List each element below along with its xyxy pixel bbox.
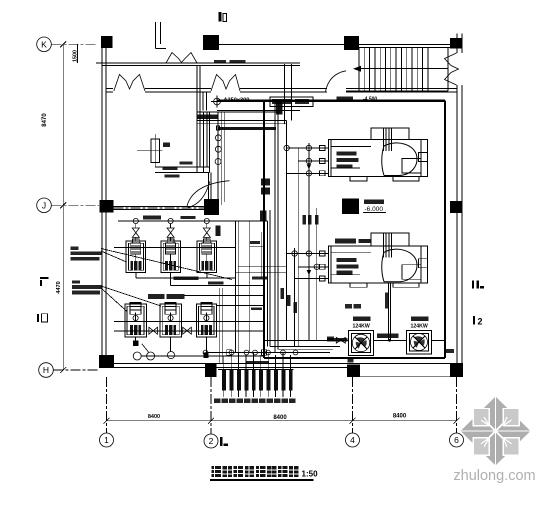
pipe hot water header — [264, 339, 445, 341]
chiller 1 name plate text — [337, 152, 359, 169]
grid bubble K — [37, 37, 97, 52]
icon beside bubble 2 — [220, 437, 228, 446]
stair treads — [359, 48, 428, 91]
pump P6 row2 — [196, 302, 216, 337]
svg-text:8400: 8400 — [393, 414, 407, 420]
pump P4 row2 — [125, 302, 147, 337]
pipe bundle verticals — [220, 101, 317, 364]
chiller1 connection pipes — [284, 145, 329, 176]
svg-text:2: 2 — [209, 436, 214, 446]
chiller 1 body — [329, 140, 428, 177]
icon left lower — [37, 314, 48, 322]
label strip DN125 — [327, 338, 348, 342]
door wave right wall — [445, 53, 459, 85]
chiller 1 top box — [371, 128, 409, 151]
door wave room wall B — [211, 75, 240, 92]
left spec text block 1 — [70, 246, 101, 260]
column 2 top — [203, 35, 219, 50]
door wave room wall A — [114, 75, 145, 92]
tank horizontals — [155, 167, 209, 173]
bottom dimension line — [104, 418, 460, 424]
pipe drop pair below tank lines — [209, 172, 211, 200]
column 6 bottom — [450, 363, 463, 377]
pump row2 label — [148, 294, 185, 299]
door arc lower-left of room — [188, 182, 210, 208]
pipe chiller2 drop — [388, 283, 391, 342]
riser pipes crossing corridor wall — [197, 66, 210, 172]
icon L1 right upper — [472, 280, 484, 288]
pump P2 row1 — [161, 218, 181, 272]
chiller 2 label above — [335, 239, 371, 244]
wire top-left wall jog — [156, 22, 167, 49]
pipe tag dark — [260, 211, 267, 222]
wire right wall — [457, 34, 462, 378]
left spec text block 2 — [72, 280, 102, 294]
svg-text:8400: 8400 — [148, 414, 160, 420]
dark junction blob — [276, 102, 283, 115]
chiller 1 compressor — [382, 143, 428, 176]
pump P1 row1 — [126, 218, 146, 272]
collector label on wall — [247, 361, 270, 364]
door arc mid wall — [187, 181, 230, 206]
thick pipe segment below — [218, 127, 276, 130]
pump P3 row1 — [197, 218, 217, 272]
chiller 2 name plate text — [337, 258, 359, 275]
wire left wall — [102, 48, 106, 356]
pump A label — [353, 316, 371, 329]
door arc stair — [326, 71, 347, 92]
column J mid — [204, 199, 219, 215]
row2 crossing pipes — [114, 322, 264, 332]
small text st under boundary — [348, 359, 354, 362]
chiller 1 inlet flanges — [320, 146, 329, 176]
capped riser cross symbol — [211, 96, 223, 108]
svg-text:4470: 4470 — [56, 281, 62, 293]
chiller 2 feet — [350, 283, 419, 288]
row1 bottom headers — [136, 273, 264, 286]
svg-text:A350x300: A350x300 — [224, 97, 250, 103]
pipe horizontals upper — [197, 112, 287, 124]
bowtie valves row2 — [149, 327, 191, 334]
chiller 2 inlet flanges — [320, 251, 329, 281]
valve box right of P3 — [216, 225, 221, 236]
grid bubble 2 — [204, 377, 218, 448]
icon T2 right lower — [473, 316, 483, 327]
pump A square — [349, 331, 374, 356]
wall labels top — [214, 60, 246, 63]
row1 bottom label strips — [173, 276, 223, 284]
column 6 top-right — [450, 38, 462, 49]
title underline — [210, 479, 314, 481]
manifold riser bars — [222, 370, 292, 391]
dark label strip left of riser — [196, 114, 217, 119]
icon top center — [218, 12, 226, 22]
stair arrow — [353, 66, 386, 72]
pipe label between pumps — [377, 334, 399, 338]
svg-text:-4.500: -4.500 — [363, 96, 377, 102]
pump B square — [407, 331, 432, 355]
bottom horizontal pipes — [206, 346, 341, 352]
svg-text:H: H — [43, 365, 49, 375]
svg-text:1:50: 1:50 — [302, 470, 319, 479]
row1 crossing pipe — [114, 247, 236, 249]
svg-text:K: K — [41, 39, 47, 49]
manifold stubs up — [224, 353, 291, 370]
svg-text:1500: 1500 — [73, 50, 79, 62]
text heat exchange room — [345, 304, 361, 309]
valve circles bottom line — [203, 350, 298, 356]
pipe label vertical DN — [385, 293, 389, 309]
chiller 1 feet — [350, 177, 419, 182]
wire mid wall J row — [114, 207, 205, 210]
elevation marker text -6.000 — [363, 200, 386, 219]
boundary labels — [336, 96, 377, 102]
grid bubble 1 — [100, 377, 114, 447]
bundle pipe tags — [261, 179, 319, 314]
svg-text:zhulong.com: zhulong.com — [453, 468, 535, 484]
pump row1 header pipe — [118, 220, 268, 222]
column J left — [100, 200, 114, 213]
chiller 2 body — [329, 246, 428, 283]
svg-text:1: 1 — [104, 435, 109, 445]
valve bowtie on header — [327, 337, 345, 344]
svg-text:-6.000: -6.000 — [365, 206, 384, 213]
manifold top connector — [218, 368, 294, 370]
chiller 2 compressor — [382, 249, 428, 282]
extra bundle crossing pipes — [184, 221, 287, 353]
dim text spans — [148, 414, 407, 421]
duct box on wall — [270, 97, 313, 106]
svg-text:2: 2 — [478, 317, 483, 327]
title fake CJK glyphs — [212, 466, 299, 477]
valve column with circles — [215, 112, 225, 208]
small text 400 right — [446, 349, 454, 353]
svg-text:124KW: 124KW — [353, 324, 370, 330]
svg-text:8400: 8400 — [273, 415, 287, 421]
header label strips — [143, 216, 196, 220]
manifold stubs down with ticks — [224, 390, 291, 397]
svg-text:J: J — [42, 200, 46, 210]
bundle tag strips 2 — [251, 277, 267, 311]
svg-text:6: 6 — [454, 435, 459, 445]
wire top wall right section — [219, 45, 457, 48]
column K top-left — [101, 36, 113, 48]
manifold label row — [214, 398, 295, 403]
icon left upper — [40, 277, 49, 286]
column 4 bottom — [347, 365, 360, 378]
column 4 top — [344, 36, 359, 50]
stair landing line — [346, 48, 448, 91]
elevation marker black square — [342, 199, 359, 215]
grid bubble 4 — [346, 377, 360, 447]
chiller 2 top box — [371, 233, 409, 257]
grid bubble J — [37, 198, 204, 213]
leader diagonals — [101, 249, 232, 312]
pump P5 row2 — [160, 302, 182, 337]
svg-text:4: 4 — [350, 435, 355, 445]
heavy machine-room boundary — [217, 101, 445, 359]
column H bottom-left — [99, 355, 114, 368]
watermark pinwheel diamond — [461, 397, 531, 466]
vertical dimension line — [60, 41, 66, 373]
column J right — [450, 201, 462, 213]
label -4.5 small — [250, 241, 260, 244]
grid bubble H — [39, 363, 99, 378]
svg-text:124KW: 124KW — [411, 324, 428, 330]
row2 bottom fittings — [133, 337, 264, 360]
column 2 bottom — [205, 364, 217, 377]
small dim 1500 — [73, 44, 79, 63]
tank area label strips — [163, 161, 193, 177]
grid bubble 6 — [450, 377, 464, 447]
wire top-left corridor wall — [96, 63, 300, 65]
wire bottom wall — [99, 364, 462, 377]
chiller2 connection pipes — [287, 251, 329, 279]
pump B label — [411, 316, 429, 329]
riser pipes pair right — [285, 64, 292, 124]
expansion tank — [137, 134, 170, 167]
svg-text:8470: 8470 — [42, 113, 48, 127]
door wave top-left — [166, 53, 197, 64]
pipe pair below wall — [203, 92, 300, 111]
wire room top wall segments — [106, 89, 457, 93]
